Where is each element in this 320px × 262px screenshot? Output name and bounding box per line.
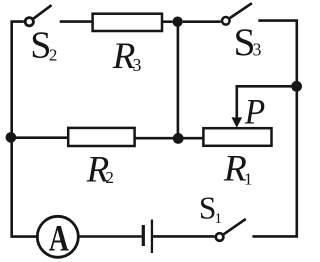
svg-text:1: 1: [244, 170, 253, 189]
wire left node to R2: [11, 136, 68, 139]
wire left vertical loop (top-left corner, left side, bottom-left corner): [12, 22, 37, 237]
node W junction dot on right wire: [291, 81, 302, 92]
rheostat R1: [203, 128, 271, 146]
switch S2 lever: [34, 5, 52, 18]
svg-text:1: 1: [215, 211, 223, 227]
wire ammeter to battery: [79, 235, 141, 238]
svg-text:2: 2: [49, 45, 58, 64]
switch S1 circle: [216, 233, 224, 241]
resistor R2: [68, 128, 134, 146]
node T junction dot: [172, 17, 182, 27]
wire node T to S3: [183, 20, 221, 23]
switch S3 circle: [222, 17, 230, 25]
resistor R3: [93, 14, 162, 31]
wire right vertical loop (top-right corner, right side, bottom-right corner): [252, 21, 296, 237]
node L junction dot: [6, 132, 17, 143]
wire R3 to node T: [162, 20, 172, 23]
label P: [244, 91, 265, 131]
switch S2 circle: [25, 18, 33, 26]
rheostat wiper arrowhead: [232, 117, 243, 127]
battery long thin plate: [151, 220, 153, 254]
svg-text:A: A: [49, 219, 69, 260]
node M junction dot: [173, 133, 184, 144]
ammeter A circle: [37, 216, 78, 257]
rheostat wiper wire from node W: [237, 86, 297, 118]
wire battery to S1: [153, 235, 214, 238]
wire vertical node T to node M: [177, 24, 180, 136]
svg-text:2: 2: [105, 168, 114, 187]
switch S1 lever: [224, 219, 246, 234]
svg-text:P: P: [244, 91, 265, 131]
ammeter letter A: [49, 219, 69, 260]
switch S3 lever: [230, 3, 252, 18]
svg-text:3: 3: [253, 40, 262, 60]
wire S2 to R3: [60, 20, 93, 23]
battery short thick plate: [142, 225, 145, 246]
wire R2 to node M to R1: [135, 137, 204, 140]
svg-text:3: 3: [133, 55, 142, 75]
